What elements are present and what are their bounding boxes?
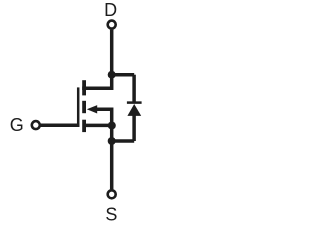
node drain junction dot: [108, 71, 116, 79]
wire diode anode vertical: [132, 116, 136, 142]
wire drain to diode cathode branch: [112, 73, 135, 77]
wire S lead: [110, 141, 114, 189]
MOSFET channel drain segment: [82, 80, 86, 95]
wire diode anode branch: [112, 139, 135, 143]
wire drain elbow to channel top: [82, 75, 112, 89]
terminal S circle: [108, 190, 116, 198]
wire D lead: [110, 30, 114, 73]
diode triangle: [127, 104, 141, 116]
terminal G circle: [32, 121, 40, 129]
wire diode cathode vertical: [132, 75, 136, 102]
svg-text:S: S: [105, 205, 117, 225]
wire gate lead: [40, 124, 79, 128]
terminal D circle: [108, 21, 116, 29]
MOSFET body arrow: [87, 105, 97, 113]
wire source stub: [84, 124, 112, 128]
MOSFET gate bar: [77, 87, 80, 127]
wire between source nodes: [110, 126, 114, 142]
diode cathode bar: [127, 101, 142, 104]
svg-text:D: D: [104, 0, 117, 20]
MOSFET channel body segment: [82, 101, 86, 113]
svg-text:G: G: [10, 115, 24, 135]
wire body to source node: [95, 109, 112, 125]
node source junction dot: [108, 122, 116, 130]
MOSFET channel source segment: [82, 120, 86, 132]
node diode anode junction dot: [108, 137, 116, 145]
